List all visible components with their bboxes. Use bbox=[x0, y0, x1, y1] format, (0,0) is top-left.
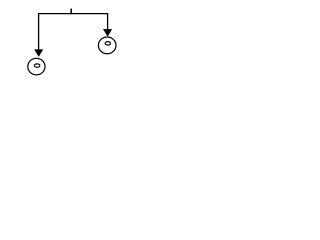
label "o" inside right node bbox=[105, 42, 110, 45]
label "o" inside left node bbox=[34, 64, 39, 67]
arrowhead to left child node bbox=[34, 50, 43, 57]
background bbox=[0, 0, 150, 83]
arrowhead to right child node bbox=[103, 29, 112, 36]
node: left child ellipse bbox=[28, 58, 45, 75]
wire: orthogonal branch bus (left vertical, horizontal crossbar, right vertical) bbox=[39, 14, 108, 51]
wire: incoming edge stub from parent (top center) bbox=[70, 9, 72, 15]
node: right child ellipse bbox=[98, 37, 116, 54]
